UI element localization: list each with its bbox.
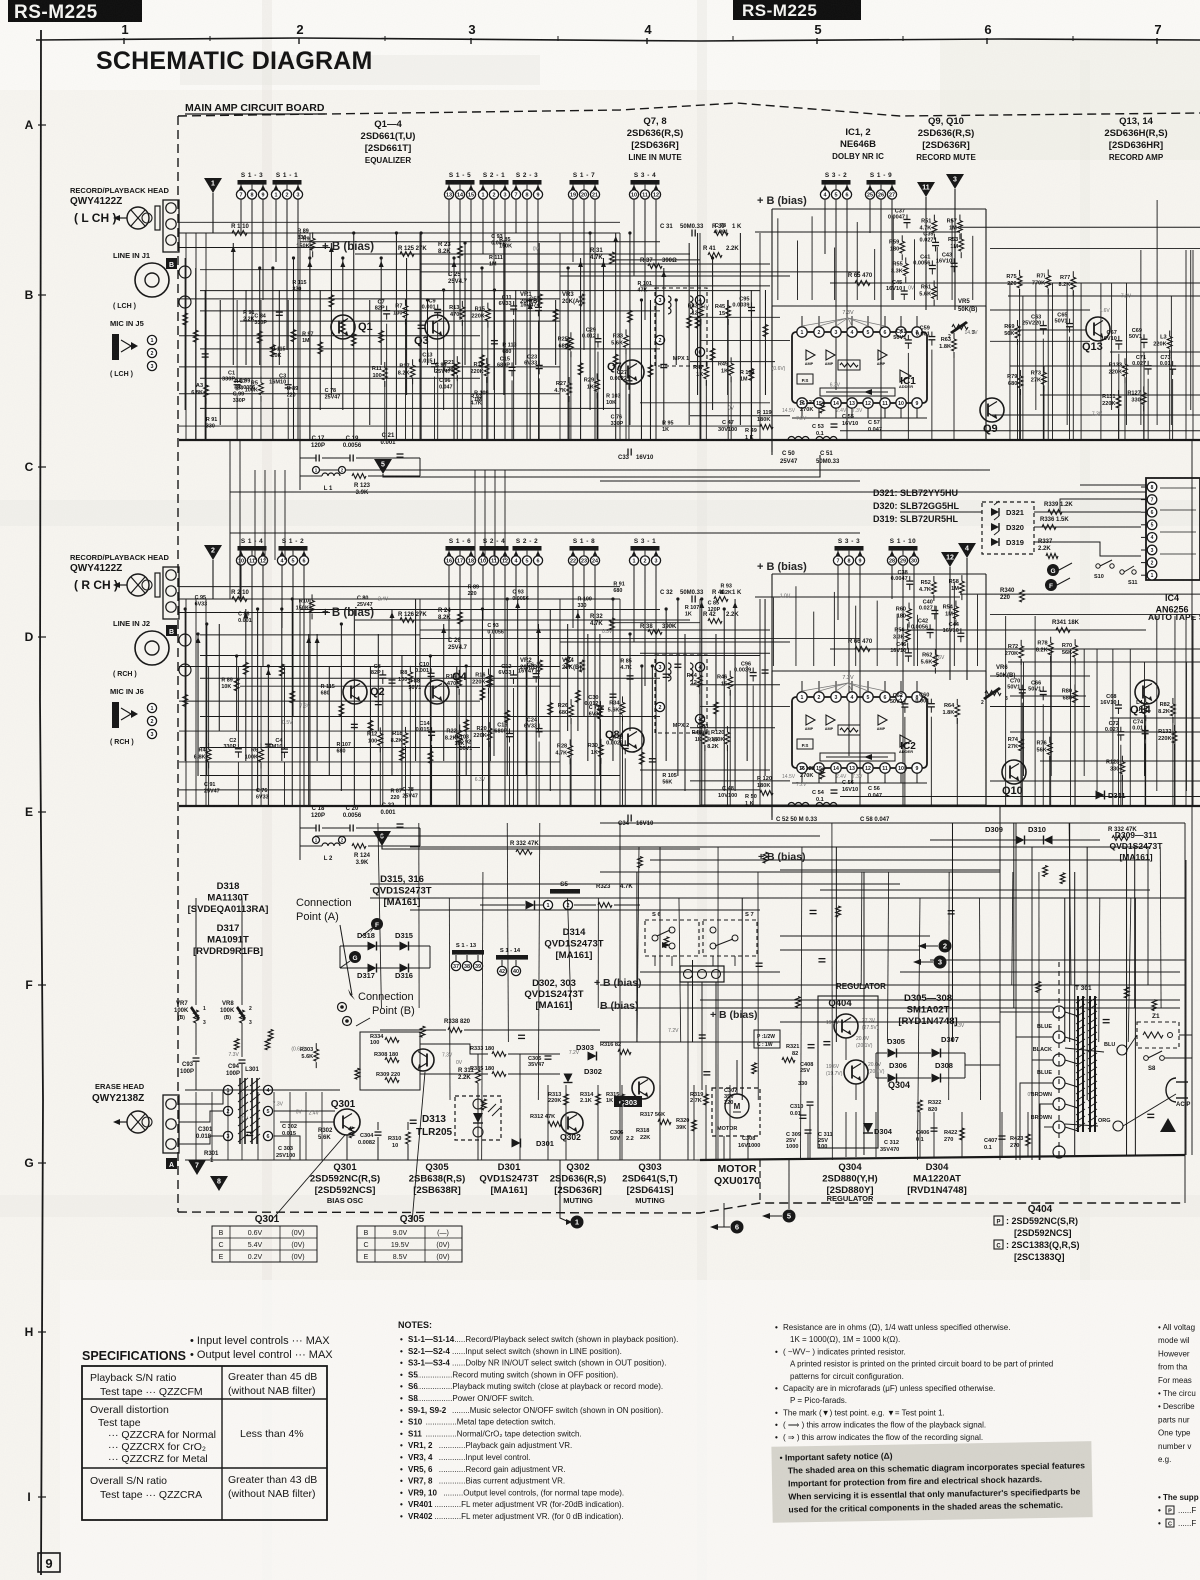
wire bottom bus (179, 805, 1200, 807)
wire right rail 3 (1010, 695, 1086, 697)
resistor R53 1M (960, 233, 962, 239)
svg-text:1.0V: 1.0V (780, 594, 791, 600)
capacitor (mesh) (202, 353, 209, 355)
resistor R73 27K (1043, 366, 1045, 372)
transistor Q2 (343, 680, 367, 704)
wire middle extra rails (650, 859, 1150, 861)
resistor (mesh bottom-left) (355, 1068, 360, 1079)
resistor R 124 3.9K (352, 844, 366, 849)
svg-text:680: 680 (502, 349, 511, 355)
capacitor C63 25V220 (1042, 321, 1044, 326)
test point triangle 11 (917, 182, 935, 197)
resistor R120 180K (726, 726, 728, 732)
diode D303 (588, 1052, 597, 1061)
diode D304 symbol (863, 1123, 873, 1133)
wire mid extra verticals 2 (1064, 898, 1066, 1042)
resistor (mesh mid) (664, 937, 669, 948)
svg-text:0V: 0V (533, 247, 540, 253)
svg-text:(0.6V): (0.6V) (772, 366, 786, 372)
svg-text:R 97: R 97 (707, 737, 718, 743)
svg-text:C 99: C 99 (435, 362, 446, 368)
L301 pin 4 (263, 1085, 272, 1094)
svg-text:7.2V: 7.2V (1121, 293, 1132, 299)
resistor (mesh) (578, 363, 583, 375)
node G (1047, 564, 1059, 576)
wire IC surround verticals (777, 218, 779, 300)
resistor R48 1K (704, 726, 706, 732)
svg-text:8.2K: 8.2K (720, 590, 731, 596)
wire to IC4 (900, 629, 1146, 631)
capacitor C40 0.027 (934, 605, 936, 610)
capacitor (mesh mid) (1103, 1019, 1110, 1021)
resistor (mesh mid) (1043, 866, 1048, 877)
resistor R133 220K (1124, 358, 1126, 364)
left ruler line (40, 30, 43, 1575)
wire right rails (990, 309, 1090, 311)
transistor Q404 (834, 1014, 858, 1038)
page number 9 (38, 1553, 60, 1572)
capacitor (mesh) (388, 679, 395, 681)
svg-text:56K: 56K (662, 779, 672, 785)
wire long verticals (185, 233, 187, 440)
resistor R52 4.7K (933, 576, 935, 582)
resistor (mesh mid) (1124, 987, 1129, 998)
capacitor C2 330P (237, 744, 239, 749)
resistor (mesh bottom-left) (234, 1039, 239, 1050)
svg-text:330P: 330P (233, 398, 246, 404)
svg-text:0.0056: 0.0056 (512, 596, 529, 602)
board edge dashed through connectors (1058, 962, 1060, 1158)
svg-text:R 91: R 91 (613, 582, 624, 588)
capacitor C10 0.001 (430, 668, 432, 673)
resistor (mesh) (597, 707, 602, 719)
op-amp IC IC2 (Dolby NR) (792, 697, 927, 768)
svg-text:2.4V: 2.4V (378, 596, 389, 602)
resistor (mesh) (710, 348, 715, 360)
resistor (mesh) (257, 331, 262, 343)
important safety notice box (771, 1441, 1092, 1523)
svg-text:R 107: R 107 (685, 605, 699, 611)
test point triangle 2 (204, 545, 222, 560)
resistor (mesh) (340, 320, 345, 332)
wire rail 2 (560, 275, 790, 277)
top ruler line (36, 38, 1200, 41)
resistor R59 180 (901, 235, 903, 241)
capacitor C41 0.0056 (931, 260, 933, 265)
wire osc box (360, 1032, 420, 1090)
resistor R44 12 (699, 669, 701, 675)
svg-text:47K: 47K (638, 288, 648, 294)
diode D311 (1096, 791, 1105, 800)
resistor R56 3.3K (907, 624, 909, 630)
capacitor C5 16V47 (537, 302, 539, 307)
resistor (mesh) (628, 310, 633, 322)
wire switch pin drops (240, 565, 242, 599)
svg-text:C 93: C 93 (487, 623, 498, 629)
resistor R4 6.8K (208, 743, 210, 749)
wire S6 S7 drops (654, 956, 656, 966)
L301 pin 3 (223, 1131, 232, 1140)
resistor R21 8.2K (456, 356, 458, 362)
wire right rail 3 (1010, 329, 1086, 331)
capacitor (mesh) (418, 324, 425, 326)
resistor (mesh) (639, 752, 644, 764)
svg-text:R 109: R 109 (740, 370, 754, 376)
wire rail (420, 263, 770, 265)
capacitor C4 16M10 (283, 744, 285, 749)
L301 pin 6 (263, 1131, 272, 1140)
inductor under IC bottom (788, 803, 809, 807)
wire bottom bus (179, 439, 1200, 441)
svg-text:0V: 0V (456, 1060, 463, 1066)
svg-text:R 101: R 101 (638, 281, 652, 287)
svg-text:R 111: R 111 (489, 255, 503, 261)
capacitor (mesh bottom-left) (410, 1119, 417, 1121)
transistor Q304 (in regulator) (844, 1060, 868, 1084)
T301 connector circles (1053, 1006, 1065, 1018)
wire inter-channel verticals left (229, 440, 231, 599)
target circle 2 (939, 940, 952, 953)
node box A (166, 1158, 177, 1169)
capacitor (mesh) (674, 663, 681, 665)
resistor R33 5.6K (625, 329, 627, 335)
resistor (mesh) (566, 337, 571, 349)
diode D302 (564, 1074, 573, 1083)
svg-text:6.3V: 6.3V (830, 383, 841, 389)
test point triangle 4 (958, 543, 976, 558)
resistor R34 5.6K (621, 696, 623, 702)
IC1 internal amplifiers (806, 350, 815, 360)
capacitor C28 0.0022 (624, 740, 626, 745)
svg-text:10K: 10K (606, 400, 616, 406)
svg-text:330: 330 (297, 235, 306, 241)
resistor (mesh) (339, 704, 344, 716)
node G circle (349, 951, 361, 963)
resistor (mesh) (553, 309, 558, 321)
resistor (mesh mid) (763, 852, 768, 863)
title block RS-M225 (top center) (733, 0, 861, 20)
resistor R60 180 (908, 603, 910, 609)
IC IC4 AN6256 auto tape select (1146, 478, 1200, 580)
diode D316 (400, 964, 409, 973)
resistor R49 1K (730, 357, 732, 363)
svg-text:1M: 1M (740, 377, 748, 383)
wire IC enclosing frame (772, 573, 986, 575)
resistor L4 1K (1145, 696, 1147, 702)
paper grain (0, 0, 1, 1)
svg-text:50V1: 50V1 (409, 685, 422, 691)
resistor (mesh mid) (796, 997, 801, 1008)
switch S7 dashed box (703, 920, 757, 956)
resistor L3 220K (1169, 330, 1171, 336)
svg-text:R 91: R 91 (206, 417, 217, 423)
svg-text:50V1: 50V1 (460, 746, 473, 752)
resistor R72 270K (1020, 640, 1022, 646)
svg-text:C 86: C 86 (238, 611, 249, 617)
L301 pin 2 (223, 1106, 232, 1115)
svg-text:0.001: 0.001 (715, 230, 729, 236)
resistor R57 1M (959, 215, 961, 221)
resistor R58 1M (961, 575, 963, 581)
svg-text:330: 330 (206, 423, 215, 429)
resistor R7 100 (404, 300, 406, 306)
svg-text:C 88: C 88 (409, 678, 420, 684)
resistor (mesh) (548, 703, 553, 715)
transistor Q7 (620, 360, 644, 384)
capacitor (mesh bottom-left) (518, 1034, 525, 1036)
wire switch pin drops (240, 199, 242, 233)
resistor (mesh mid) (1060, 873, 1065, 884)
resistor (mesh) (565, 657, 570, 669)
inductor under IC bottom (788, 437, 809, 440)
svg-text:120P: 120P (708, 607, 721, 613)
capacitor (mesh mid) (799, 1114, 806, 1116)
wire right-side verticals (1005, 616, 1007, 806)
resistor R66 470 (855, 647, 870, 652)
resistor R55 3.3K (905, 257, 907, 263)
resistor R10 150K (311, 594, 313, 600)
svg-text:R 85: R 85 (499, 237, 510, 243)
wire rail (420, 629, 770, 631)
resistor (mesh) (243, 662, 248, 674)
main amp board dashed border (178, 103, 1200, 116)
svg-text:680: 680 (613, 588, 622, 594)
wire middle rails (600, 822, 1185, 824)
IC2 internal resistor box (838, 725, 860, 735)
wire rail 2 (560, 641, 790, 643)
capacitor C9 0.001 (437, 304, 439, 309)
capacitor (mesh) (649, 758, 656, 760)
svg-text:C 80: C 80 (357, 596, 368, 602)
svg-text:7.3V: 7.3V (229, 1052, 240, 1058)
capacitor C65 50V1 (1069, 319, 1071, 324)
svg-text:C 85: C 85 (708, 600, 719, 606)
capacitor C66 50V1 (1042, 686, 1044, 691)
connector to head (163, 567, 179, 619)
wire (480, 904, 525, 906)
svg-text:C 91: C 91 (204, 782, 215, 788)
wire right rail 4 (1110, 351, 1200, 353)
resistor (mesh) (488, 675, 493, 687)
capacitor C37 0.0047 (906, 214, 908, 219)
wire VR7/VR8 drops (195, 898, 197, 1005)
resistor R16 220K (488, 669, 490, 675)
svg-text:R 107: R 107 (336, 742, 350, 748)
svg-text:C 84: C 84 (254, 313, 265, 319)
resistor R43 12 (700, 300, 702, 306)
resistor R128 330 (1121, 756, 1123, 762)
svg-text:0V: 0V (1028, 1092, 1035, 1098)
svg-text:680: 680 (234, 386, 243, 392)
svg-text:25V47: 25V47 (435, 369, 451, 375)
resistor R45 15 (727, 300, 729, 306)
wire IC enclosing frame (772, 208, 986, 210)
capacitor (mesh) (491, 340, 498, 342)
svg-text:4.7K: 4.7K (620, 665, 631, 671)
resistor (mesh mid) (836, 906, 841, 917)
wire T301 leads (1065, 1012, 1078, 1016)
transistor Q3 (425, 315, 449, 339)
test point triangle 12 (941, 552, 959, 567)
svg-text:R 89: R 89 (468, 584, 479, 590)
diode D315 (400, 942, 409, 951)
IC2 top pins 1-8 (797, 692, 807, 702)
wire (300, 827, 316, 829)
resistor (mesh) (270, 345, 275, 357)
svg-text:R 103: R 103 (606, 394, 620, 400)
svg-text:R 95: R 95 (662, 420, 673, 426)
resistor (mesh) (480, 355, 485, 367)
capacitor C73 0.01 (1172, 361, 1174, 366)
capacitor C46 16V10 (907, 648, 909, 653)
svg-text:R 89: R 89 (287, 386, 298, 392)
wire right +B rail (830, 282, 1200, 284)
svg-text:R 87: R 87 (234, 379, 245, 385)
svg-text:1.6V: 1.6V (934, 655, 945, 661)
svg-text:R 113: R 113 (502, 342, 516, 348)
transistor Q302 (561, 1112, 583, 1134)
capacitor C24 6V33 (538, 724, 540, 729)
svg-text:R 115: R 115 (321, 684, 335, 690)
wire muting area verticals (547, 1085, 549, 1160)
capacitor (mesh mid) (823, 1041, 830, 1043)
resistor R7i 770K (1047, 269, 1049, 275)
svg-text:6V33: 6V33 (589, 712, 602, 718)
svg-text:0V: 0V (296, 1110, 303, 1116)
wire far right verticals (1185, 250, 1187, 440)
resistor (mesh) (763, 325, 768, 337)
wire IC top frame (772, 305, 986, 307)
svg-text:10K: 10K (221, 684, 231, 690)
svg-text:1M: 1M (489, 262, 497, 268)
resistor R62 5.6K (934, 649, 936, 655)
capacitor C59 0.001 (931, 332, 933, 337)
svg-text:680: 680 (336, 748, 345, 754)
head gap element (155, 206, 160, 230)
svg-text:1M: 1M (474, 397, 482, 403)
svg-text:0.5V: 0.5V (282, 720, 293, 726)
resistor (mesh mid) (1152, 1000, 1157, 1011)
resistor R69 56K (1016, 320, 1018, 326)
connector to head (163, 200, 179, 252)
resistor A3 6.8K (205, 379, 207, 385)
resistor R22 8.2K (459, 724, 461, 730)
resistor R8 100 (409, 666, 411, 672)
capacitor (mesh) (762, 669, 769, 671)
resistor R51 4.7K (933, 215, 935, 221)
LED D320 (991, 523, 999, 531)
resistor (mesh) (291, 330, 296, 342)
svg-text:C 83: C 83 (697, 724, 708, 730)
resistor R12 100 (379, 727, 381, 733)
resistor R63 1.8K (953, 333, 955, 339)
capacitor C7 82P (386, 306, 388, 311)
resistor R61 5.6K (933, 280, 935, 286)
test point triangle 1 (204, 178, 222, 193)
resistor (mesh) (480, 688, 485, 700)
wire channel verticals (184, 609, 186, 761)
capacitor (mesh mid) (756, 962, 763, 964)
svg-text:0V: 0V (242, 1117, 249, 1123)
capacitor C45 16V10 (903, 286, 905, 291)
transistor Q4 (425, 680, 449, 704)
resistor R 123 3.9K (352, 474, 366, 479)
erase head connector (163, 1095, 179, 1153)
capacitor C29 0.012 (597, 334, 599, 339)
transistor Q303 (632, 1077, 654, 1099)
wire power verticals (845, 1112, 847, 1157)
IC1 bottom pins 16-9 (797, 398, 807, 408)
power note boxed P C (754, 1030, 780, 1048)
svg-text:C 96: C 96 (439, 378, 450, 384)
resistor R79 680 (1019, 370, 1021, 376)
capacitor (mesh mid) (808, 1044, 815, 1046)
svg-text:0.001: 0.001 (238, 618, 252, 624)
resistor R20 220K (489, 722, 491, 728)
svg-text:6V33: 6V33 (256, 794, 269, 800)
resistor (mesh) (351, 334, 356, 346)
resistor R132 220K (1174, 725, 1176, 731)
resistor (mesh) (576, 690, 581, 702)
capacitor C71 0.027 (1147, 361, 1149, 366)
capacitor (mesh mid) (1147, 1113, 1154, 1115)
wire +B rail (355, 619, 690, 621)
wire channel rails (179, 586, 620, 588)
svg-text:7.3V: 7.3V (273, 1101, 284, 1107)
resistor (mesh) (687, 316, 692, 328)
capacitor (mesh mid) (703, 1071, 710, 1073)
capacitor (mesh) (276, 311, 283, 313)
resistor (mesh mid) (1036, 981, 1041, 992)
resistor R30 1K (600, 739, 602, 745)
wire (300, 457, 316, 459)
connection point A circles (338, 1003, 347, 1012)
resistor R80 680 (1074, 685, 1076, 691)
svg-text:(0.6V): (0.6V) (291, 1046, 305, 1052)
transistor Q14 (1135, 680, 1159, 704)
capacitor C30 0.012 (599, 701, 601, 706)
resistor R46 15 (729, 671, 731, 677)
capacitor C27 0.0022 (628, 376, 630, 381)
wire middle verticals (619, 823, 621, 1160)
capacitor (mesh mid) (948, 910, 955, 912)
resistor (mesh bottom-left) (349, 1127, 354, 1138)
svg-text:25V47: 25V47 (357, 602, 373, 608)
IC1 P.S box (797, 374, 813, 384)
svg-text:1K: 1K (685, 612, 692, 618)
photocoupler D313 dashed box (455, 1096, 501, 1140)
svg-text:R 105: R 105 (662, 773, 676, 779)
svg-text:330: 330 (292, 287, 301, 293)
svg-text:14.5V: 14.5V (965, 330, 979, 336)
diode D317 (368, 964, 377, 973)
wire right rail 2 (1008, 295, 1200, 297)
capacitor C42 0.0056 (929, 624, 931, 629)
svg-text:C 99: C 99 (233, 391, 244, 397)
svg-text:C 78: C 78 (325, 388, 336, 394)
svg-text:R 89: R 89 (221, 677, 232, 683)
wire IC4 internals (1160, 487, 1196, 489)
resistor R65 470 (855, 281, 870, 286)
capacitor C43 16V10 (953, 258, 955, 263)
wire channel verticals (184, 258, 186, 410)
specifications table (82, 1366, 327, 1520)
capacitor C67 16V10 (1118, 336, 1120, 341)
wires LED block to IC4 (1034, 511, 1141, 513)
capacitor (mesh) (627, 675, 634, 677)
capacitor (mesh mid) (699, 1034, 706, 1036)
wire motor (736, 1060, 738, 1094)
